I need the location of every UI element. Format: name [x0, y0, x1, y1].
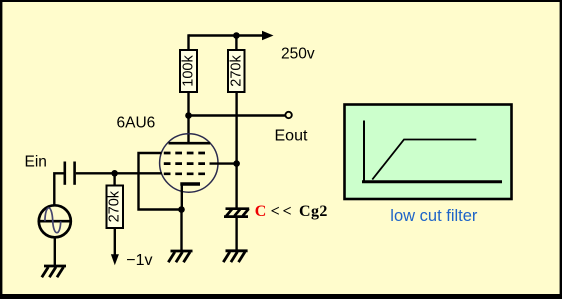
- ground (bypass cap): [223, 251, 247, 262]
- graph x-axis: [362, 180, 502, 183]
- wire: grid resistor to bias arrow: [114, 228, 116, 255]
- svg-text:270k: 270k: [228, 55, 244, 87]
- svg-text:6AU6: 6AU6: [117, 114, 156, 131]
- svg-text:270k: 270k: [107, 190, 123, 222]
- capacitor coupling (input): [64, 162, 67, 185]
- cathode bar: [180, 182, 200, 185]
- grid g1 (control) dashes: [164, 172, 205, 175]
- svg-text:C: C: [255, 203, 267, 220]
- panel: low cut filter graph: [345, 105, 512, 200]
- wire: cathode to ground: [180, 210, 182, 252]
- source horizontal axis line: [40, 220, 70, 223]
- wire: source to ground: [54, 237, 56, 266]
- node: plate junction: [185, 112, 192, 119]
- wire: cathode lead down: [181, 183, 183, 210]
- node: cathode junction: [178, 206, 185, 213]
- ground (cathode): [168, 251, 192, 262]
- graph y-axis: [363, 121, 365, 182]
- terminal Eout (open circle): [285, 112, 291, 118]
- node: grid resistor junction: [111, 170, 118, 177]
- wire: B+ supply rail horizontal: [189, 34, 264, 36]
- wire: source to coupling cap: [54, 173, 63, 205]
- graph response curve: [372, 140, 476, 180]
- tube 6AU6 envelope: [160, 134, 218, 192]
- wire: cap to grid g1: [76, 172, 162, 174]
- junction dot: supply / 270k: [233, 32, 240, 39]
- wire: 100k bottom lead to plate node: [187, 92, 189, 116]
- resistor 270k (screen dropper): [228, 50, 245, 92]
- svg-text:<<: <<: [271, 203, 295, 220]
- wire: g2 to screen node: [210, 162, 237, 164]
- node: screen junction on 270k line: [233, 160, 240, 167]
- grid g3 (suppressor) dashes: [164, 152, 205, 155]
- resistor 270k (grid leak): [107, 186, 124, 229]
- wire: grid resistor top lead: [113, 173, 115, 185]
- ground (source): [42, 266, 66, 277]
- arrow to 250v supply: [262, 31, 274, 40]
- grid g2 (screen) dashes: [164, 162, 205, 165]
- svg-text:250v: 250v: [281, 46, 315, 63]
- svg-text:100k: 100k: [181, 55, 197, 87]
- source sine wave: [45, 208, 61, 233]
- wire: 100k top lead: [187, 34, 189, 50]
- svg-text:low cut filter: low cut filter: [390, 207, 478, 225]
- wire: 270k bottom lead down to screen node and bypass cap: [235, 92, 237, 208]
- svg-text:Ein: Ein: [25, 154, 47, 171]
- source: sine generator circle: [39, 205, 71, 237]
- wire: plate node to Eout terminal: [189, 114, 286, 116]
- capacitor C (screen bypass, hatched plate): [224, 209, 249, 217]
- wire: plate lead into tube: [187, 116, 189, 144]
- wire: bypass cap to ground: [235, 217, 237, 251]
- svg-text:−1v: −1v: [126, 252, 152, 269]
- resistor 100k (plate load): [180, 50, 197, 92]
- plate (anode) bar: [169, 142, 211, 145]
- wire: 270k top lead: [235, 36, 237, 51]
- arrow to -1v bias: [111, 254, 119, 265]
- wire: g3 tie to cathode (left loop): [139, 153, 182, 210]
- svg-text:Cg2: Cg2: [299, 203, 328, 220]
- svg-text:Eout: Eout: [275, 127, 308, 144]
